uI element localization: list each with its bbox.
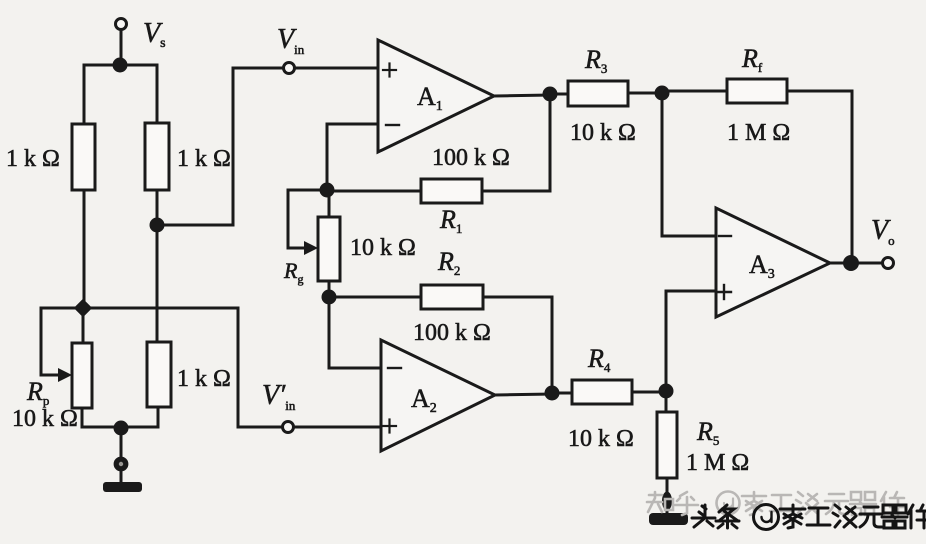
wire A2 out to R4 <box>552 392 572 395</box>
resistor R5 <box>657 412 677 478</box>
wire A2 output <box>495 394 552 395</box>
wire R3 to node <box>628 92 662 95</box>
node A2 output <box>545 386 560 401</box>
resistor 1kΩ bridge bottom-right <box>147 342 171 407</box>
wire Rp bottom <box>81 408 84 427</box>
terminal V'in <box>283 422 294 433</box>
wire left bridge lower <box>83 190 86 308</box>
potentiometer Rg body <box>318 217 340 281</box>
label Vs <box>143 18 166 51</box>
wire A1 out to R3 <box>550 93 568 96</box>
resistor R1 <box>421 179 482 203</box>
resistor 1kΩ bridge top-left <box>72 124 95 190</box>
svg-text:10 k Ω: 10 k Ω <box>350 235 416 261</box>
wire R4 to node <box>632 391 666 394</box>
resistor R4 <box>572 380 632 404</box>
wire left bridge upper <box>83 65 86 124</box>
op-amp A2 <box>381 340 495 451</box>
svg-text:10 k Ω: 10 k Ω <box>12 406 78 432</box>
wire V'in feed <box>238 308 282 427</box>
watermark toutiao row (black) <box>692 505 926 530</box>
svg-text:10 k Ω: 10 k Ω <box>570 120 636 146</box>
resistor R2 <box>421 285 483 309</box>
wire right bridge mid <box>156 190 159 225</box>
op-amp A3 <box>716 208 830 317</box>
svg-text:1 M Ω: 1 M Ω <box>686 450 749 476</box>
wire R2 left <box>329 296 421 299</box>
wire node down to A3 - input <box>662 93 716 236</box>
node R1 left junction <box>320 183 335 198</box>
resistor 1kΩ bridge top-right <box>145 123 169 190</box>
wire node to Rp top <box>82 308 85 343</box>
node ground dot left <box>116 459 126 469</box>
svg-text:1 k Ω: 1 k Ω <box>177 146 231 172</box>
wire node to Rg top <box>328 190 331 217</box>
wire node up to A3 + input <box>666 291 716 391</box>
wire Rg bottom <box>328 281 331 297</box>
terminal Vo <box>883 258 894 269</box>
wire bottom-right resistor to bottom rail <box>157 407 160 427</box>
wire Rp wiper left drop <box>41 308 58 375</box>
wire A1 - input <box>327 124 378 190</box>
wire to ground left <box>120 428 123 459</box>
wire node to Rf <box>662 90 727 93</box>
wire R1 left <box>327 190 421 193</box>
wire Vin to A1 + <box>295 67 378 70</box>
svg-text:1 k Ω: 1 k Ω <box>177 366 231 392</box>
wire right bridge upper <box>156 65 159 123</box>
node bridge left mid <box>74 299 92 317</box>
wire right bridge lower <box>156 225 159 342</box>
terminal Vin <box>284 63 295 74</box>
wire ground stub right <box>666 508 669 515</box>
resistor R3 <box>568 81 628 106</box>
svg-text:100 k Ω: 100 k Ω <box>432 145 510 171</box>
wire V'in to A2 + <box>294 426 381 429</box>
node R3-Rf junction <box>655 86 670 101</box>
wire Vin2 horizontal rail <box>41 307 238 310</box>
wire top bridge horizontal <box>84 64 157 67</box>
wire node to R5 <box>665 391 668 412</box>
node A1 output <box>543 87 558 102</box>
potentiometer Rp body <box>72 343 92 408</box>
wire Vin feed <box>157 68 283 225</box>
Rg wiper arrowhead <box>304 241 318 255</box>
node A3 output <box>843 255 859 271</box>
wire bridge bottom rail <box>83 426 158 429</box>
wire A2 - input <box>329 297 381 368</box>
node Vs junction <box>113 58 128 73</box>
watermark zhihu row (gray) <box>647 492 904 516</box>
wire Rf right down to output <box>787 91 852 263</box>
ground right <box>649 513 688 525</box>
wire R1 right feedback <box>482 96 550 191</box>
resistor Rf <box>727 79 787 103</box>
wire R5 to ground <box>666 478 669 496</box>
node R4-R5 junction <box>659 384 674 399</box>
svg-text:1 M Ω: 1 M Ω <box>727 120 790 146</box>
ground left <box>103 482 142 492</box>
node bridge bottom <box>114 421 129 436</box>
node R2 left junction <box>322 290 337 305</box>
svg-text:1 k Ω: 1 k Ω <box>6 146 60 172</box>
wire A1 output <box>494 95 550 96</box>
wire A3 output <box>830 262 883 265</box>
node bridge right mid <box>150 218 165 233</box>
svg-text:10 k Ω: 10 k Ω <box>568 426 634 452</box>
wire Rg wiper arm <box>288 190 327 248</box>
svg-text:100 k Ω: 100 k Ω <box>413 320 491 346</box>
Rp wiper arrowhead <box>58 368 72 382</box>
terminal Vs <box>116 19 127 66</box>
op-amp A1 <box>378 40 494 152</box>
node ground dot right <box>662 492 672 511</box>
wire ground stub left <box>120 470 123 483</box>
wire R2 right feedback <box>483 297 552 393</box>
